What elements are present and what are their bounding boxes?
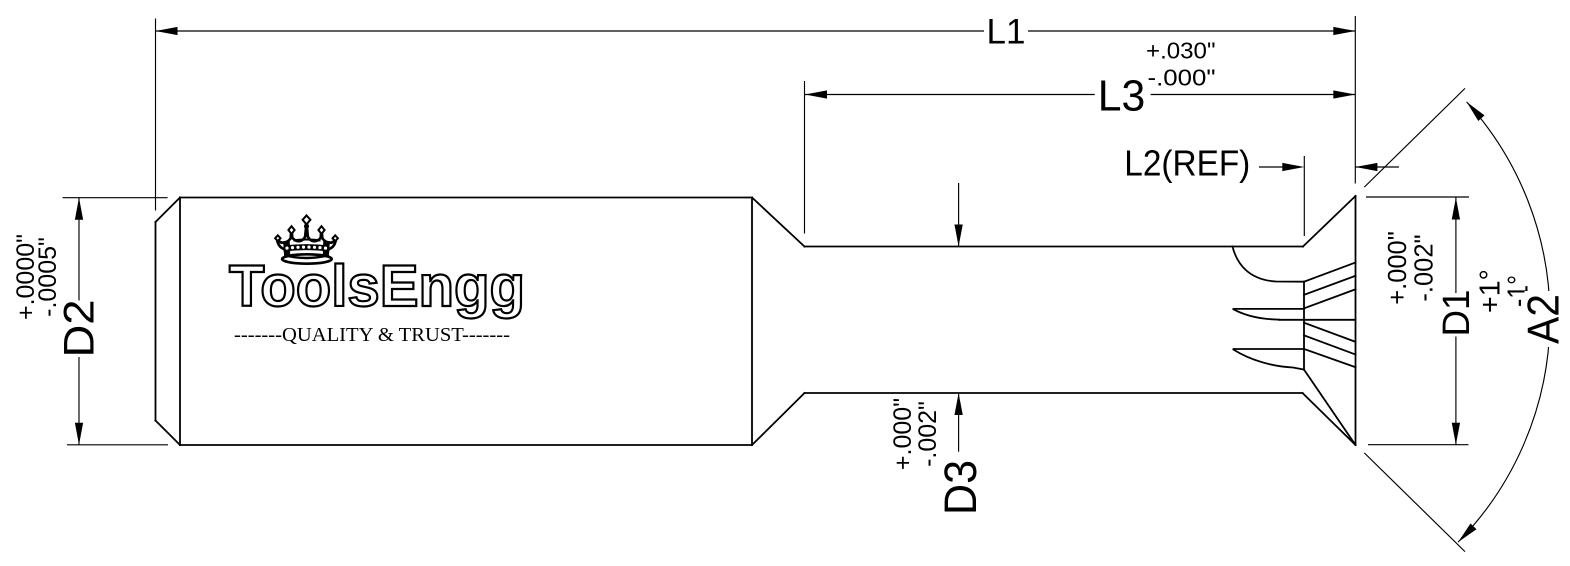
svg-text:L2(REF): L2(REF) bbox=[1124, 143, 1250, 184]
svg-text:+.030": +.030" bbox=[1146, 38, 1216, 64]
svg-text:-.000": -.000" bbox=[1148, 65, 1216, 91]
svg-text:-------QUALITY & TRUST-------: -------QUALITY & TRUST------- bbox=[234, 324, 510, 346]
svg-text:-.002": -.002" bbox=[914, 401, 942, 467]
svg-text:+.000": +.000" bbox=[889, 398, 917, 470]
svg-text:-.0005": -.0005" bbox=[34, 237, 62, 317]
svg-text:D1: D1 bbox=[1436, 290, 1478, 337]
svg-text:D2: D2 bbox=[56, 300, 104, 358]
svg-text:A2: A2 bbox=[1520, 294, 1569, 344]
svg-text:+.000": +.000" bbox=[1384, 231, 1412, 305]
svg-text:L3: L3 bbox=[1098, 72, 1146, 121]
svg-text:L1: L1 bbox=[987, 13, 1026, 52]
svg-text:D3: D3 bbox=[935, 460, 986, 515]
svg-text:-.002": -.002" bbox=[1411, 234, 1439, 301]
svg-text:ToolsEngg: ToolsEngg bbox=[229, 254, 525, 319]
